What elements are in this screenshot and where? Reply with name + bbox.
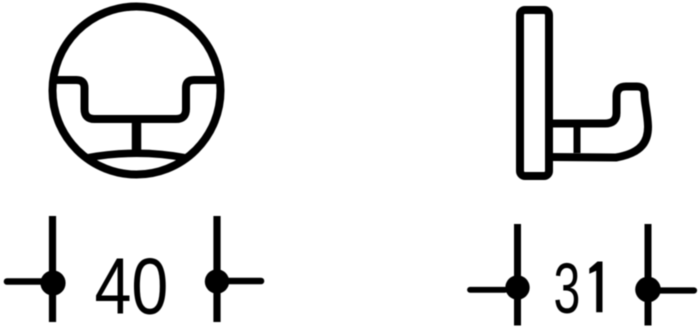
- dimension 31: value text, digit 1: [589, 262, 602, 313]
- front view: hook body outline (shoulders and cross bar): [53, 80, 220, 119]
- dimension 40: left extension line: [49, 216, 56, 322]
- side view: hook profile outline: [549, 87, 648, 158]
- dimension 31: right dot terminator: [635, 277, 661, 303]
- dimension 31: right extension line: [645, 224, 652, 326]
- dimension 40: right dot terminator: [205, 269, 229, 293]
- dimension 40: left dot terminator: [40, 270, 65, 295]
- dimension 40: right dimension line stub: [224, 278, 261, 285]
- dimension 31: left dot terminator: [505, 275, 529, 299]
- front view: bottom plate arc: [86, 153, 187, 158]
- svg-text:3: 3: [554, 249, 581, 329]
- dimension 31: left extension line: [514, 224, 521, 326]
- svg-text:40: 40: [95, 241, 169, 331]
- side view: wall plate: [520, 10, 549, 176]
- dimension 40: left dimension line stub: [7, 278, 46, 285]
- dimension 31: left dimension line stub: [470, 287, 505, 293]
- side view: fillet transition line: [574, 126, 581, 153]
- dimension 40: right extension line: [213, 216, 220, 322]
- front view: center stem: [132, 119, 142, 154]
- front view: outer circle of round hook: [53, 7, 221, 175]
- dimension 31: right dimension line stub: [660, 287, 694, 293]
